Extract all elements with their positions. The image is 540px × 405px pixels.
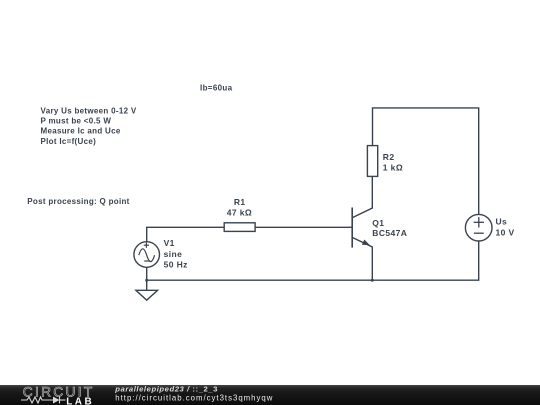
svg-text:Us: Us xyxy=(496,217,508,227)
svg-text:47 kΩ: 47 kΩ xyxy=(227,208,252,218)
svg-text:P must be <0.5 W: P must be <0.5 W xyxy=(41,117,112,126)
svg-text:Plot Ic=f(Uce): Plot Ic=f(Uce) xyxy=(41,137,97,146)
svg-text:http://circuitlab.com/cyt3ts3q: http://circuitlab.com/cyt3ts3qmhyqw xyxy=(115,393,273,402)
svg-text:sine: sine xyxy=(164,249,183,259)
svg-text:Post processing: Q point: Post processing: Q point xyxy=(27,197,129,206)
svg-text:1 kΩ: 1 kΩ xyxy=(383,162,403,172)
svg-text:V1: V1 xyxy=(164,238,175,248)
svg-text:Measure Ic and Uce: Measure Ic and Uce xyxy=(41,127,121,136)
svg-text:R1: R1 xyxy=(234,197,246,207)
svg-text:10 V: 10 V xyxy=(496,228,515,238)
svg-text:R2: R2 xyxy=(383,152,395,162)
svg-text:Ib=60ua: Ib=60ua xyxy=(200,84,233,93)
svg-text:parallelepiped23 / ::_2_3: parallelepiped23 / ::_2_3 xyxy=(114,385,218,393)
svg-text:LAB: LAB xyxy=(66,396,94,405)
svg-text:BC547A: BC547A xyxy=(372,228,407,238)
svg-text:Vary Us between 0-12 V: Vary Us between 0-12 V xyxy=(41,107,137,116)
svg-text:Q1: Q1 xyxy=(372,218,384,228)
svg-text:50 Hz: 50 Hz xyxy=(164,259,188,269)
